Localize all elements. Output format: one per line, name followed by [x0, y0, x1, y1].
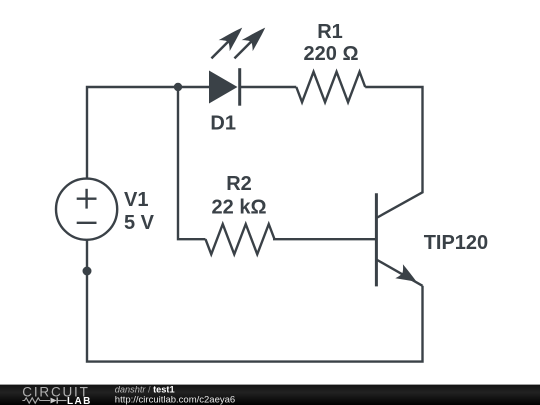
LED D1: [206, 22, 271, 106]
svg-text:danshtr / test1: danshtr / test1: [115, 385, 175, 395]
svg-text:R1: R1: [317, 21, 343, 43]
voltage source V1: [56, 179, 117, 240]
wire: [87, 240, 423, 362]
svg-text:5 V: 5 V: [124, 212, 155, 234]
resistor R1: [296, 72, 365, 102]
footer bar: [0, 385, 540, 405]
CircuitLab logo: [22, 384, 91, 405]
transistor Q1 TIP120: [376, 192, 422, 288]
node A (junction at top wire): [174, 83, 182, 91]
svg-text:D1: D1: [210, 113, 236, 135]
resistor R2: [206, 224, 275, 254]
svg-text:22 kΩ: 22 kΩ: [212, 196, 267, 218]
wire: [178, 87, 206, 239]
wire: [365, 87, 422, 193]
svg-text:R2: R2: [226, 173, 252, 195]
wire: [87, 87, 210, 179]
svg-text:LAB: LAB: [67, 396, 92, 405]
node B (junction below V1): [83, 267, 92, 276]
svg-text:220 Ω: 220 Ω: [304, 43, 359, 65]
wire: [273, 238, 375, 240]
svg-text:TIP120: TIP120: [424, 232, 488, 254]
wire: [241, 86, 297, 88]
svg-text:V1: V1: [124, 189, 148, 211]
svg-text:http://circuitlab.com/c2aeya6: http://circuitlab.com/c2aeya6: [115, 395, 235, 405]
